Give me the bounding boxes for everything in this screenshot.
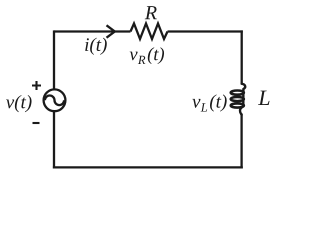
resistor R1 zigzag bbox=[131, 24, 168, 40]
wire bottom segment bbox=[53, 166, 243, 168]
voltage source sine symbol bbox=[45, 96, 64, 106]
label vL(t) inductor voltage bbox=[192, 94, 226, 111]
label L inductor value bbox=[258, 91, 269, 105]
wire right upper segment bbox=[241, 30, 243, 84]
polarity plus sign bbox=[32, 81, 41, 90]
label i(t) current bbox=[85, 38, 107, 55]
polarity minus sign bbox=[33, 122, 40, 124]
voltage source V1 circle bbox=[44, 89, 66, 111]
wire left upper segment bbox=[53, 30, 55, 89]
label v(t) source voltage bbox=[6, 95, 32, 112]
label vR(t) resistor voltage bbox=[130, 47, 164, 64]
wire top-right segment bbox=[168, 30, 243, 32]
wire right lower segment bbox=[240, 114, 242, 169]
wire left lower segment bbox=[53, 112, 55, 169]
current arrowhead bbox=[107, 25, 115, 37]
label R resistor value bbox=[145, 6, 157, 19]
inductor L1 coil bbox=[231, 84, 245, 115]
wire top-left segment bbox=[54, 30, 131, 32]
